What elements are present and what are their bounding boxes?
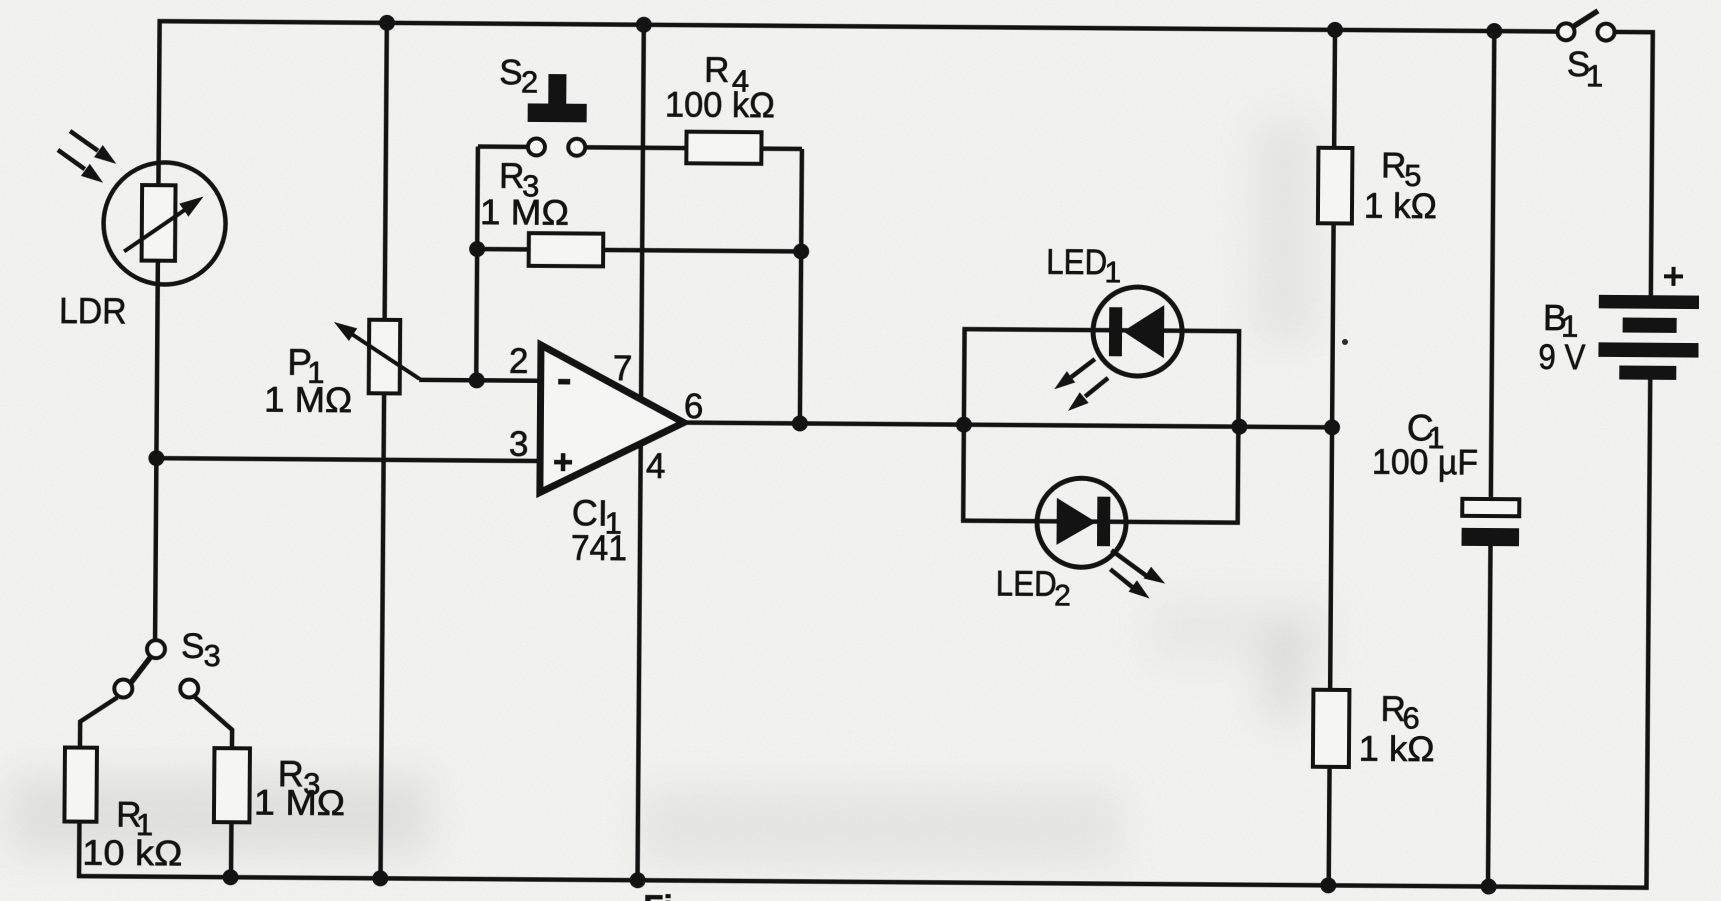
junction node R3 left	[469, 241, 485, 257]
svg-text:741: 741	[571, 529, 627, 568]
junction node top rail R5	[1327, 22, 1343, 38]
wire: op-amp pin7/pin4 vertical from top rail to bottom rail	[638, 25, 644, 880]
svg-text:1: 1	[1586, 58, 1604, 93]
resistor R3 body (feedback 1 M)	[529, 233, 604, 266]
LDR photoresistor circle	[103, 162, 226, 285]
wire: op-amp pin 2 input wire	[419, 378, 540, 383]
LED1 diode triangle pointing left	[1123, 305, 1164, 358]
svg-text:6: 6	[684, 387, 704, 426]
junction node R3 right feedback	[793, 243, 809, 259]
svg-text:R: R	[499, 157, 525, 196]
svg-text:R: R	[1381, 146, 1407, 185]
junction node bottom rail P1	[372, 870, 388, 886]
junction node LED block left	[956, 417, 972, 433]
LED1 emitted light arrow 2	[1068, 378, 1108, 411]
LED2 emitted light arrow 1	[1111, 550, 1165, 583]
junction node bottom rail lower R3	[222, 869, 238, 885]
svg-text:S: S	[181, 627, 205, 666]
svg-text:Fi: Fi	[643, 888, 673, 901]
potentiometer P1 body	[369, 320, 401, 394]
switch S3 right throw contact	[180, 679, 198, 697]
wire: left vertical from LDR branch up to top rail, and top rail to S1 left contact	[155, 21, 1557, 650]
svg-text:2: 2	[1054, 579, 1071, 612]
switch S3 pole contact	[147, 640, 165, 658]
resistor R4 body (100 k)	[686, 132, 761, 164]
svg-text:1 kΩ: 1 kΩ	[1364, 187, 1437, 227]
wire: R3 horizontal wire between left node and feedback node	[477, 249, 801, 251]
wire: lower R3 bottom lead to bottom rail	[229, 822, 234, 877]
junction node LDR pin3	[148, 450, 164, 466]
scan smudge right of R5 line	[1255, 120, 1315, 340]
resistor R3 body lower (1 M)	[214, 748, 250, 822]
svg-text:1 MΩ: 1 MΩ	[254, 783, 345, 823]
potentiometer P1 wiper arrow	[334, 322, 420, 380]
svg-text:7: 7	[613, 349, 633, 388]
wire: C1 top lead from top rail	[1491, 31, 1494, 499]
LDR resistor body	[142, 185, 176, 261]
LDR incident light arrow 2	[58, 150, 104, 183]
wire: R5/R6 vertical branch from top rail to bottom rail	[1329, 30, 1335, 885]
wire: top rail from S1 right contact to top-right corner down to battery + terminal	[1613, 32, 1653, 296]
svg-text:LED: LED	[996, 564, 1057, 603]
switch S1 left contact	[1557, 23, 1574, 40]
scan smudge near R6 left	[1262, 630, 1307, 720]
svg-text:CI: CI	[572, 492, 608, 533]
wire: S3 right throw diagonal down to lower R3	[194, 697, 232, 748]
junction node top rail C1	[1486, 23, 1502, 39]
pushbutton S2 cap	[528, 74, 587, 122]
svg-text:LDR: LDR	[59, 290, 127, 331]
wire: op-amp pin 3 input wire from LDR node	[156, 458, 540, 461]
junction node pin 2	[469, 372, 485, 388]
svg-text:S: S	[499, 53, 523, 92]
switch S3 lever	[127, 655, 152, 688]
wire: op-amp output wire to LED block and R5/R6 node	[684, 423, 1332, 428]
scan smudge above LED2 label	[1150, 600, 1330, 660]
op-amp minus sign	[558, 379, 570, 385]
scan smudge bottom left	[10, 775, 430, 855]
switch S2 right contact	[568, 139, 585, 156]
switch S1 lever	[1572, 11, 1598, 28]
LED1 circle	[1093, 287, 1183, 377]
junction node op-amp output	[792, 415, 808, 431]
LED2 diode triangle pointing right	[1056, 498, 1096, 545]
capacitor C1 bottom plate	[1462, 528, 1520, 546]
svg-text:4: 4	[646, 447, 666, 486]
junction node R5 R6 LED	[1324, 419, 1340, 435]
resistor R1 body (10 k)	[64, 748, 97, 822]
junction node bottom rail C1	[1481, 878, 1497, 894]
junction node top rail pin7	[636, 17, 652, 33]
svg-text:2: 2	[509, 342, 529, 381]
LED2 cathode bar	[1097, 497, 1110, 547]
op-amp plus sign	[554, 453, 572, 471]
svg-text:3: 3	[509, 425, 529, 464]
svg-text:2: 2	[521, 64, 539, 99]
wire: battery negative down right side, bottom rail, and up to R1 bottom	[79, 368, 1650, 888]
wire: S2 left contact horizontal	[478, 144, 528, 149]
switch S1 right contact	[1597, 24, 1614, 41]
wire: S2 left contact to R3 left node vertical, down to pin 2 node	[476, 147, 478, 381]
wire: feedback vertical from R4 right end down to op-amp output	[800, 149, 802, 423]
wire: C1 bottom lead to bottom rail	[1488, 544, 1491, 886]
junction node bottom rail pin4	[630, 872, 646, 888]
op-amp CI1 triangle	[540, 345, 685, 494]
junction node bottom rail R6	[1320, 877, 1336, 893]
capacitor C1 top plate	[1462, 499, 1519, 516]
svg-text:100 kΩ: 100 kΩ	[665, 85, 775, 125]
battery B1 plate 2 short	[1623, 318, 1677, 333]
battery plus sign	[1664, 267, 1683, 286]
svg-text:1: 1	[1104, 256, 1121, 289]
LED1 emitted light arrow 1	[1054, 359, 1095, 390]
svg-text:1 MΩ: 1 MΩ	[480, 193, 569, 233]
svg-text:100 µF: 100 µF	[1372, 442, 1478, 482]
battery B1 plate 4 short	[1619, 365, 1676, 379]
scan smudge bottom middle	[640, 790, 1120, 865]
battery B1 plate 1 long positive	[1599, 295, 1699, 309]
svg-text:3: 3	[203, 638, 221, 673]
wire: S3 left throw diagonal down to R1	[80, 697, 117, 748]
wire: P1 vertical branch from top rail to bottom rail	[381, 23, 387, 878]
LED2 emitted light arrow 2	[1110, 569, 1150, 598]
junction node top rail P1	[379, 15, 395, 31]
resistor R5 body (1 k)	[1318, 148, 1353, 224]
wire: LED parallel block rectangle	[963, 329, 1239, 523]
resistor R6 body (1 k)	[1313, 690, 1350, 767]
svg-text:R: R	[704, 51, 730, 90]
LDR incident light arrow 1	[70, 131, 117, 164]
junction node LED block right	[1231, 419, 1247, 435]
svg-text:9 V: 9 V	[1538, 338, 1586, 377]
stray ink dot	[1342, 339, 1348, 345]
svg-text:1 kΩ: 1 kΩ	[1358, 730, 1434, 770]
LED2 circle	[1037, 478, 1127, 568]
svg-text:LED: LED	[1046, 243, 1107, 282]
battery B1 plate 3 long	[1598, 342, 1698, 357]
svg-text:10 kΩ: 10 kΩ	[82, 834, 182, 874]
LED1 cathode bar	[1109, 307, 1122, 356]
svg-text:1 MΩ: 1 MΩ	[264, 380, 352, 420]
LDR variability arrow	[124, 196, 203, 252]
switch S2 left contact	[528, 138, 545, 155]
wire: S2 right contact to R4 and corner	[585, 147, 802, 149]
switch S3 left throw contact	[114, 679, 132, 697]
